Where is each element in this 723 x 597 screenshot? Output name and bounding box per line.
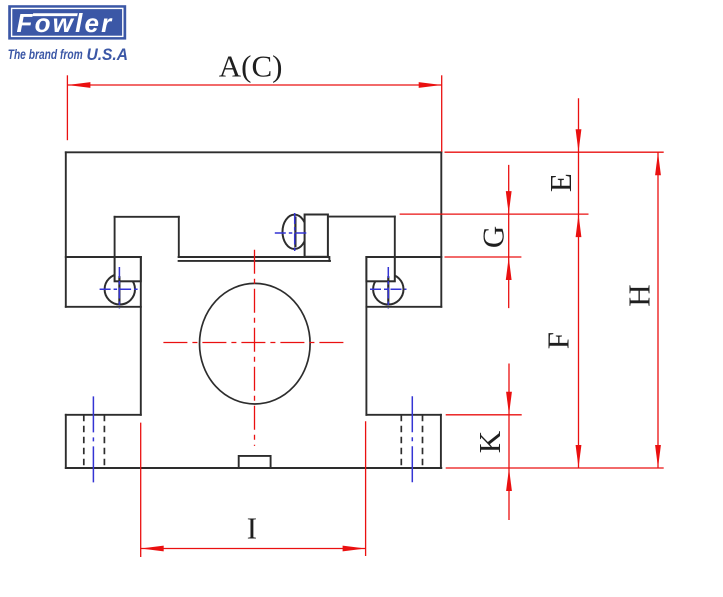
- recess top right segment: [328, 216, 395, 218]
- part top edge: [66, 151, 442, 153]
- dim G line: [508, 165, 510, 308]
- recess right wall: [394, 217, 396, 257]
- arrow K top: [506, 392, 512, 415]
- bore vertical centerline: [254, 250, 256, 446]
- shim strip right end: [328, 257, 330, 261]
- right foot outer edge: [440, 415, 442, 468]
- arrow A(C) right: [419, 82, 442, 88]
- dim A(C) left extension line: [66, 75, 68, 140]
- dim A(C) line: [67, 84, 441, 86]
- right foot hole hidden line 1: [400, 415, 402, 468]
- dim I left extension line: [140, 423, 142, 557]
- svg-text:K: K: [472, 430, 507, 453]
- dim I right extension line: [365, 421, 367, 556]
- bore horizontal centerline: [163, 342, 345, 344]
- top screw slot: [294, 217, 296, 248]
- part left edge: [65, 152, 67, 306]
- svg-text:G: G: [475, 226, 510, 248]
- part right edge: [440, 152, 442, 306]
- top screw centerline vertical: [294, 213, 296, 254]
- svg-text:Fowler: Fowler: [17, 8, 114, 38]
- logo F crossbar: [33, 13, 78, 16]
- right ear square boss: [366, 257, 394, 281]
- arrow H bottom: [655, 445, 661, 468]
- dim A(C) right extension line: [441, 75, 443, 152]
- body right edge: [365, 257, 367, 415]
- svg-text:A(C): A(C): [219, 49, 283, 84]
- extension line foot top: [446, 414, 522, 416]
- left ear bottom: [66, 306, 141, 308]
- bottom center notch: [239, 456, 271, 468]
- extension line split: [445, 256, 522, 258]
- recess left wall: [114, 217, 116, 257]
- left foot hole hidden line 2: [103, 415, 105, 468]
- top screw centerline horizontal: [275, 232, 309, 234]
- left ear square boss: [115, 257, 141, 281]
- left screw centerline horizontal: [100, 288, 141, 290]
- arrow H top: [655, 152, 661, 175]
- dim E F line: [578, 98, 580, 468]
- extension line part bottom: [446, 467, 664, 469]
- logo inner white border: [12, 8, 123, 36]
- arrow G top: [506, 191, 512, 214]
- arrow K bottom: [506, 468, 512, 491]
- dim K line: [508, 364, 510, 521]
- svg-text:F: F: [541, 332, 576, 349]
- right screw slot: [387, 276, 389, 303]
- svg-text:H: H: [622, 284, 657, 306]
- shim strip upper line: [179, 256, 329, 258]
- left foot outer edge: [65, 415, 67, 468]
- svg-text:I: I: [247, 511, 257, 546]
- left foot hole hidden line 1: [83, 415, 85, 468]
- recess top left segment: [115, 216, 179, 218]
- arrow A(C) left: [67, 82, 90, 88]
- body left edge: [140, 257, 142, 415]
- part bottom edge: [66, 467, 442, 469]
- right ear top (split line): [366, 256, 441, 258]
- left foot bolt centerline: [92, 396, 94, 484]
- dim I line: [141, 548, 366, 550]
- left foot top: [66, 414, 141, 416]
- left ear top (split line): [66, 256, 141, 258]
- right screw centerline horizontal: [370, 288, 407, 290]
- logo box: [8, 5, 126, 39]
- arrow E top: [576, 129, 582, 152]
- extension line recess top: [400, 213, 589, 215]
- arrow G bottom: [506, 257, 512, 280]
- arrow I right: [343, 546, 366, 552]
- right clamp screw head: [373, 274, 403, 304]
- top clamp screw head: [283, 215, 307, 249]
- shim strip lower line: [179, 260, 330, 262]
- right foot top: [366, 414, 441, 416]
- left clamp screw head: [105, 274, 135, 304]
- left screw slot: [118, 276, 120, 303]
- svg-text:The brand from: The brand from: [8, 46, 83, 62]
- extension line part top: [445, 151, 664, 153]
- top screw block: [305, 215, 328, 257]
- arrow F bottom: [576, 445, 582, 468]
- arrow I left: [141, 546, 164, 552]
- svg-text:E: E: [543, 173, 578, 192]
- svg-text:U.S.A: U.S.A: [87, 46, 129, 64]
- arrow E bottom F top: [576, 214, 582, 237]
- recess step wall: [178, 217, 180, 257]
- right ear bottom: [366, 306, 441, 308]
- right foot bolt centerline: [411, 396, 413, 483]
- right screw centerline vertical: [387, 267, 389, 309]
- right foot hole hidden line 2: [422, 415, 424, 468]
- left screw centerline vertical: [118, 267, 120, 309]
- dim H line: [657, 152, 659, 468]
- bore circle: [200, 283, 311, 404]
